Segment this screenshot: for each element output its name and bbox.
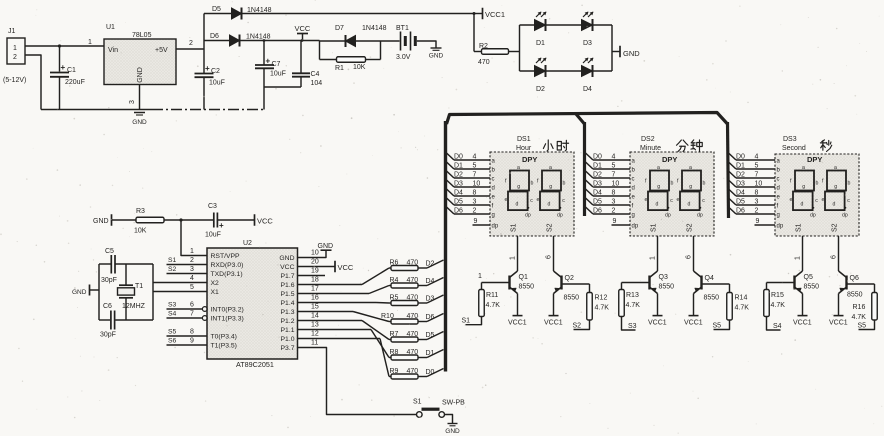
transistor Q2 8550 <box>554 271 580 302</box>
display DS2 digit 1 <box>645 165 674 219</box>
svg-text:Q5: Q5 <box>804 274 813 281</box>
svg-text:c: c <box>562 198 565 204</box>
node D2 into display bus <box>426 260 444 268</box>
svg-text:c: c <box>670 198 673 204</box>
svg-text:DPY: DPY <box>807 155 822 164</box>
wire S1 stub to U2 pin2 <box>167 257 208 265</box>
svg-text:U1: U1 <box>106 24 115 31</box>
wire U2 pin11 P3.7 to switch <box>298 348 417 415</box>
svg-text:dp: dp <box>557 213 563 219</box>
svg-text:P1.5: P1.5 <box>281 291 295 298</box>
display DS1 digit 2 <box>537 165 566 219</box>
svg-text:b: b <box>816 181 819 187</box>
wire BT1 to ground <box>417 41 436 48</box>
svg-text:Q4: Q4 <box>705 275 714 282</box>
svg-text:d: d <box>632 186 635 192</box>
display DS3 digit 2 <box>822 165 851 219</box>
svg-text:10: 10 <box>612 181 620 188</box>
wire dp pin 9 stub into DS2 <box>612 218 631 225</box>
svg-text:P1.1: P1.1 <box>281 327 295 334</box>
svg-text:D0: D0 <box>454 154 463 161</box>
svg-text:Q6: Q6 <box>850 275 859 282</box>
wire U2 pin to R8 <box>298 330 390 358</box>
svg-text:1: 1 <box>13 45 17 52</box>
transistor Q4 8550 <box>694 271 720 302</box>
resistor R16 4.7K <box>852 284 878 321</box>
svg-text:470: 470 <box>478 59 490 66</box>
svg-text:3.0V: 3.0V <box>396 54 411 61</box>
capacitor C6 30pF <box>100 303 116 339</box>
svg-text:2: 2 <box>190 257 194 264</box>
svg-text:7: 7 <box>612 172 616 179</box>
LED D1 <box>535 12 547 47</box>
svg-text:S3: S3 <box>628 323 637 330</box>
wire dp pin 9 stub into DS3 <box>755 218 776 225</box>
svg-text:104: 104 <box>311 80 323 87</box>
resistor R11 4.7K <box>479 283 500 317</box>
svg-text:S5: S5 <box>168 329 177 336</box>
resistor R4 470 <box>389 277 427 288</box>
svg-text:3: 3 <box>473 199 477 206</box>
svg-text:P1.4: P1.4 <box>281 300 295 307</box>
svg-text:b: b <box>848 181 851 187</box>
svg-text:470: 470 <box>407 277 419 284</box>
svg-text:13: 13 <box>311 322 319 329</box>
svg-text:d: d <box>777 186 780 192</box>
svg-text:dp: dp <box>632 224 639 230</box>
wire S5 stub to U2 pin8 <box>167 329 208 337</box>
resistor R6 470 <box>389 260 427 271</box>
svg-text:5: 5 <box>612 163 616 170</box>
node S2 <box>573 320 590 330</box>
LED bridge frame wires <box>520 25 613 71</box>
capacitor C1 220uF <box>50 46 85 110</box>
svg-text:10uF: 10uF <box>205 232 221 239</box>
svg-text:S5: S5 <box>713 323 722 330</box>
svg-text:INT0(P3.2): INT0(P3.2) <box>211 307 244 314</box>
svg-text:4.7K: 4.7K <box>595 305 610 312</box>
resistor R8 470 <box>389 349 427 360</box>
switch S1 SW-PB <box>413 399 465 418</box>
svg-text:7: 7 <box>473 172 477 179</box>
svg-text:R13: R13 <box>626 292 639 299</box>
svg-text:4.7K: 4.7K <box>771 302 786 309</box>
node D5 wire into DS1 <box>447 198 491 206</box>
node D3 wire into DS2 <box>586 180 631 188</box>
svg-text:1N4148: 1N4148 <box>246 34 271 41</box>
svg-text:a: a <box>689 165 692 171</box>
svg-text:P1.0: P1.0 <box>281 336 295 343</box>
svg-text:D4: D4 <box>593 190 602 197</box>
svg-text:Minute: Minute <box>640 145 661 152</box>
transistor Q3 8550 <box>650 271 675 294</box>
svg-text:DS2: DS2 <box>641 136 655 143</box>
svg-text:D5: D5 <box>454 199 463 206</box>
svg-text:SW-PB: SW-PB <box>442 400 465 407</box>
svg-text:10K: 10K <box>353 64 366 71</box>
svg-text:S3: S3 <box>168 302 177 309</box>
svg-text:30pF: 30pF <box>101 277 117 284</box>
svg-text:d: d <box>548 202 551 208</box>
ground GND at LED bridge <box>612 46 640 58</box>
svg-text:GND: GND <box>318 243 334 250</box>
wire U2 pin to R10 <box>298 312 390 322</box>
svg-text:VCC: VCC <box>295 24 311 33</box>
svg-text:d: d <box>833 202 836 208</box>
svg-text:10uF: 10uF <box>270 71 286 78</box>
display DS3 S1 S2 pins <box>796 223 839 232</box>
capacitor C2 10uF <box>195 64 225 87</box>
svg-text:R11: R11 <box>486 292 498 299</box>
LED D3 <box>582 12 594 47</box>
svg-text:GND: GND <box>279 255 294 262</box>
wire switch to ground <box>445 415 453 424</box>
svg-text:+: + <box>205 64 210 73</box>
svg-text:78L05: 78L05 <box>132 32 152 39</box>
node D0 wire into DS3 <box>729 153 776 161</box>
svg-text:g: g <box>632 213 635 219</box>
node D3 into display bus <box>426 295 444 303</box>
svg-text:4: 4 <box>473 154 477 161</box>
wire U2 pin to R4 <box>298 286 390 294</box>
MCU U2 AT89C2051 <box>207 240 298 369</box>
svg-text:4.7K: 4.7K <box>852 314 867 321</box>
svg-text:+: + <box>219 221 224 230</box>
svg-text:S2: S2 <box>168 266 177 273</box>
U2 right pin number labels <box>311 250 319 347</box>
diode D7 1N4148 (pointing left) <box>320 25 387 47</box>
svg-text:Q1: Q1 <box>519 274 528 281</box>
svg-text:dp: dp <box>842 213 848 219</box>
svg-text:VCC: VCC <box>257 217 273 226</box>
LED D2 <box>535 58 547 93</box>
wire U2 pin to R9 <box>298 339 390 377</box>
ground GND left of R3 <box>93 214 136 226</box>
svg-text:(5-12V): (5-12V) <box>3 77 26 84</box>
svg-text:D6: D6 <box>454 208 463 215</box>
svg-text:DPY: DPY <box>662 155 677 164</box>
node D1 wire into DS1 <box>447 162 491 170</box>
svg-text:c: c <box>847 198 850 204</box>
svg-text:GND: GND <box>429 53 444 60</box>
ground GND below U1 <box>132 113 147 127</box>
wire U2 pin19 stub <box>298 275 326 277</box>
svg-text:1: 1 <box>190 248 194 255</box>
ground rail dash-dot <box>41 109 264 111</box>
node D1 wire into DS3 <box>729 162 776 170</box>
wire DS3 S2 to transistor <box>831 236 839 271</box>
svg-text:2: 2 <box>473 208 477 215</box>
display DS1 title <box>516 136 569 152</box>
resistor R9 470 <box>389 368 427 379</box>
svg-text:RST/VPP: RST/VPP <box>211 253 241 260</box>
svg-text:P1.7: P1.7 <box>281 273 295 280</box>
svg-text:c: c <box>815 198 818 204</box>
power VCC right of C3 <box>255 214 274 226</box>
power VCC symbol <box>295 24 311 41</box>
svg-text:VCC: VCC <box>280 264 294 271</box>
wire DS3 S1 to transistor <box>795 236 803 271</box>
svg-text:Second: Second <box>782 145 806 152</box>
svg-text:R2: R2 <box>479 43 488 50</box>
bus vertical DS2 <box>583 122 586 216</box>
svg-text:1N4148: 1N4148 <box>362 25 387 32</box>
svg-text:GND: GND <box>445 428 460 435</box>
svg-text:VCC1: VCC1 <box>793 320 812 327</box>
svg-text:15: 15 <box>311 304 319 311</box>
wire DS1 S2 to transistor <box>546 236 554 271</box>
svg-text:8: 8 <box>190 329 194 336</box>
svg-text:d: d <box>801 202 804 208</box>
node D3 wire into DS1 <box>447 180 491 188</box>
svg-text:R14: R14 <box>735 295 748 302</box>
svg-text:6: 6 <box>686 255 693 259</box>
resistor R2 470 <box>474 14 520 67</box>
svg-text:R12: R12 <box>595 295 608 302</box>
wire Q6 base to R16 <box>847 283 875 285</box>
power VCC1 at Q1 <box>508 294 527 327</box>
battery BT1 3.0V <box>381 25 416 61</box>
svg-text:g: g <box>802 184 805 190</box>
svg-text:g: g <box>689 184 692 190</box>
bus vertical DS3 <box>728 122 729 218</box>
wire X2 to U2 <box>153 275 207 283</box>
node S5 <box>713 320 730 330</box>
connector J1 <box>7 28 25 64</box>
svg-text:D2: D2 <box>454 172 463 179</box>
power VCC1 at Q3 <box>648 294 667 327</box>
power VCC1 symbol top <box>473 8 506 20</box>
svg-text:1: 1 <box>478 273 482 280</box>
svg-text:b: b <box>671 181 674 187</box>
svg-text:D0: D0 <box>736 154 745 161</box>
diode D6 1N4148 <box>204 33 271 47</box>
svg-text:S2: S2 <box>547 223 554 232</box>
capacitor C7 10uF <box>255 41 301 110</box>
svg-text:S1: S1 <box>462 318 471 325</box>
node D0 wire into DS1 <box>447 153 491 161</box>
wire J1 pin1 to U1 Vin <box>25 39 104 48</box>
ground GND at U2 pin10 <box>298 243 334 258</box>
svg-text:C4: C4 <box>311 71 320 78</box>
svg-text:9: 9 <box>474 218 478 225</box>
node D1 into display bus <box>426 350 444 358</box>
svg-text:e: e <box>645 197 648 203</box>
svg-text:470: 470 <box>407 349 419 356</box>
svg-text:8550: 8550 <box>847 292 863 299</box>
resistor R15 4.7K <box>764 283 785 317</box>
svg-text:1: 1 <box>510 256 517 260</box>
transistor Q5 8550 <box>795 271 820 294</box>
svg-text:8550: 8550 <box>564 295 580 302</box>
svg-text:S1: S1 <box>511 223 518 232</box>
svg-text:+: + <box>61 63 66 72</box>
svg-text:5: 5 <box>473 163 477 170</box>
node D5 wire into DS2 <box>586 198 631 206</box>
svg-text:D3: D3 <box>583 40 592 47</box>
svg-text:D6: D6 <box>210 33 219 40</box>
power VCC1 at Q5 <box>793 294 812 327</box>
svg-text:D4: D4 <box>583 86 592 93</box>
svg-text:S1: S1 <box>796 223 803 232</box>
svg-text:g: g <box>549 184 552 190</box>
svg-text:D1: D1 <box>454 163 463 170</box>
wire X1 to U2 <box>153 284 207 292</box>
node D2 wire into DS3 <box>729 171 776 179</box>
svg-text:1: 1 <box>88 39 92 46</box>
svg-text:b: b <box>563 181 566 187</box>
capacitor C5 30pF <box>101 248 117 284</box>
svg-text:a: a <box>834 165 837 171</box>
svg-text:VCC1: VCC1 <box>684 320 703 327</box>
svg-text:RXD(P3.0): RXD(P3.0) <box>211 262 244 269</box>
node D6 wire into DS3 <box>729 207 776 215</box>
node D4 wire into DS3 <box>729 189 776 197</box>
svg-text:BT1: BT1 <box>396 25 409 32</box>
svg-text:11: 11 <box>311 340 318 347</box>
svg-text:4.7K: 4.7K <box>486 302 501 309</box>
svg-text:8: 8 <box>473 190 477 197</box>
svg-text:4.7K: 4.7K <box>735 305 750 312</box>
svg-text:P3.7: P3.7 <box>281 345 295 352</box>
svg-text:Hour: Hour <box>516 145 532 152</box>
svg-text:18: 18 <box>311 277 319 284</box>
svg-text:Vin: Vin <box>108 47 118 54</box>
svg-text:R16: R16 <box>853 304 866 311</box>
svg-text:4: 4 <box>190 275 194 282</box>
svg-text:8550: 8550 <box>659 284 675 291</box>
svg-text:a: a <box>517 165 520 171</box>
node D4 wire into DS1 <box>447 189 491 197</box>
svg-text:GND: GND <box>137 67 144 83</box>
crystal T1 12MHZ <box>118 264 146 320</box>
svg-text:C1: C1 <box>67 67 76 74</box>
svg-text:R6: R6 <box>390 260 399 267</box>
svg-text:S2: S2 <box>832 223 839 232</box>
resistor R1 10K <box>320 41 381 72</box>
svg-text:S4: S4 <box>168 311 177 318</box>
svg-text:e: e <box>505 197 508 203</box>
svg-text:dp: dp <box>492 224 499 230</box>
svg-text:+5V: +5V <box>155 47 168 54</box>
wire R3 to C3 / node to U2 pin1 <box>164 218 214 255</box>
node D6 into display bus <box>426 314 444 322</box>
power VCC1 at Q6 <box>829 294 848 327</box>
svg-text:b: b <box>703 181 706 187</box>
svg-text:GND: GND <box>623 49 640 58</box>
svg-text:8: 8 <box>755 190 759 197</box>
resistor R5 470 <box>389 295 427 306</box>
wire DS2 S1 to transistor <box>650 236 658 271</box>
wire Q1 base to R11 <box>482 282 510 284</box>
transistor Q6 8550 <box>839 271 863 299</box>
svg-text:dp: dp <box>525 213 531 219</box>
wire VCC net (D6 cathode rightwards) <box>241 39 320 42</box>
svg-text:3: 3 <box>190 266 194 273</box>
svg-text:c: c <box>702 198 705 204</box>
svg-text:12: 12 <box>311 331 319 338</box>
node S4 <box>767 317 782 331</box>
svg-text:TXD(P3.1): TXD(P3.1) <box>211 271 243 278</box>
resistor R14 4.7K <box>727 284 749 320</box>
wire U2 pin to R7 <box>298 321 390 340</box>
node S3 <box>622 317 637 331</box>
svg-text:R4: R4 <box>390 277 399 284</box>
svg-text:S4: S4 <box>773 323 782 330</box>
svg-text:g: g <box>492 213 495 219</box>
svg-text:U2: U2 <box>243 240 252 247</box>
svg-text:S2: S2 <box>573 323 582 330</box>
svg-text:GND: GND <box>93 218 109 225</box>
svg-text:8550: 8550 <box>804 284 820 291</box>
wire Q4 base to R14 <box>702 283 730 285</box>
display DS1 S1 S2 pins <box>511 223 554 232</box>
svg-text:C7: C7 <box>272 61 281 68</box>
wire D5 cathode to VCC1 <box>243 13 475 15</box>
svg-text:AT89C2051: AT89C2051 <box>236 360 274 369</box>
resistor R12 4.7K <box>587 284 609 320</box>
svg-text:X2: X2 <box>211 280 220 287</box>
svg-text:R1: R1 <box>335 65 344 72</box>
svg-text:4: 4 <box>612 154 616 161</box>
wire J1 pin2 down to ground rail <box>25 55 41 110</box>
svg-text:10K: 10K <box>134 228 147 235</box>
display DS2 digit 2 <box>677 165 706 219</box>
svg-text:T1(P3.5): T1(P3.5) <box>211 343 237 350</box>
svg-text:dp: dp <box>810 213 816 219</box>
display DS3 title <box>782 136 832 152</box>
svg-text:7: 7 <box>755 172 759 179</box>
LED D4 <box>582 58 594 93</box>
svg-text:R9: R9 <box>390 368 399 375</box>
wire U2 pin to R6 <box>298 268 390 285</box>
svg-text:6: 6 <box>190 302 194 309</box>
svg-text:R15: R15 <box>771 292 784 299</box>
wire Q3 base to R13 <box>622 282 650 284</box>
svg-text:C3: C3 <box>208 203 217 210</box>
svg-text:VCC1: VCC1 <box>485 10 505 19</box>
svg-text:VCC1: VCC1 <box>829 320 848 327</box>
svg-text:S6: S6 <box>168 338 177 345</box>
node D4 wire into DS2 <box>586 189 631 197</box>
svg-text:6: 6 <box>831 255 838 259</box>
node D2 wire into DS1 <box>447 171 491 179</box>
wire S4 stub to U2 pin7 with bubble <box>167 311 208 321</box>
svg-text:10uF: 10uF <box>209 80 225 87</box>
resistor R13 4.7K <box>619 283 640 317</box>
svg-text:d: d <box>516 202 519 208</box>
svg-text:dp: dp <box>697 213 703 219</box>
svg-text:e: e <box>537 197 540 203</box>
svg-text:3: 3 <box>755 199 759 206</box>
power VCC1 at Q4 <box>684 294 703 327</box>
wire S2 stub to U2 pin3 <box>167 266 208 274</box>
node S1 <box>462 317 482 325</box>
power VCC at U2 pin20 <box>298 261 354 273</box>
diode D5 1N4148 <box>204 6 272 20</box>
svg-text:1: 1 <box>650 256 657 260</box>
svg-text:S5: S5 <box>858 323 867 330</box>
svg-text:D5: D5 <box>736 199 745 206</box>
capacitor C4 104 <box>292 41 322 88</box>
node: regulator output vertical (D5/D6/C2) <box>203 14 205 110</box>
svg-text:D2: D2 <box>536 86 545 93</box>
wire DS1 S1 to transistor <box>510 236 518 271</box>
wire dp pin 9 stub into DS1 <box>473 218 491 225</box>
svg-text:D4: D4 <box>736 190 745 197</box>
svg-text:DPY: DPY <box>522 155 537 164</box>
node D5 wire into DS3 <box>729 198 776 206</box>
